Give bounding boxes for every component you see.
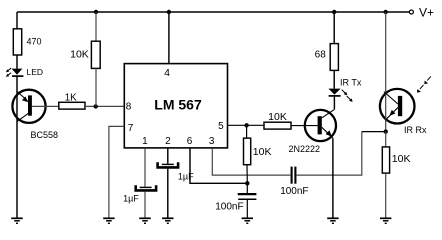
node junction dot on rail at 68 — [332, 10, 336, 14]
wire pin 3 input run — [212, 148, 290, 175]
IR Rx light arrow 1 — [420, 85, 424, 89]
node junction dot on rail at IR Rx — [384, 10, 388, 14]
IR Rx light arrow 2 — [427, 76, 431, 80]
svg-text:1K: 1K — [65, 93, 77, 104]
transistor IR Rx emitter diagonal with arrow — [386, 108, 398, 120]
svg-text:8: 8 — [126, 101, 132, 112]
wire capacitor pin2 to ground — [167, 169, 169, 218]
wire 10K right to ground — [385, 173, 387, 217]
resistor 68 — [330, 44, 338, 71]
ground 100nF timing — [242, 218, 253, 223]
capacitor 100nF timing bottom plate — [238, 198, 256, 200]
wire 1K to LM567 pin 8 — [85, 105, 124, 107]
wire 10K left to base node — [95, 68, 97, 106]
node junction dot on rail at pin 4 — [167, 10, 171, 14]
wire V+ top rail — [17, 11, 409, 13]
ground pin 7 — [103, 218, 114, 223]
wire resistor 470 to LED — [16, 55, 18, 69]
svg-text:10K: 10K — [392, 153, 411, 165]
svg-text:470: 470 — [27, 36, 42, 46]
wire pin 2 to capacitor — [167, 148, 169, 164]
svg-text:10K: 10K — [253, 146, 272, 158]
svg-text:IR Rx: IR Rx — [404, 125, 427, 135]
node junction dot timing — [245, 181, 249, 185]
LED cathode bar — [12, 75, 23, 77]
wire node to 10K right — [385, 132, 387, 147]
LED light arrow 1 — [8, 68, 12, 71]
wire pin 5 to junction — [228, 124, 265, 126]
ground 10K right — [380, 218, 391, 223]
wire rail to resistor 68 — [333, 12, 335, 44]
wire rail down through IR Rx to node — [385, 12, 387, 132]
transistor BC558 emitter diagonal with arrow — [17, 91, 28, 101]
capacitor 100nF coupling plate 1 — [291, 167, 293, 184]
svg-text:6: 6 — [187, 136, 193, 147]
svg-text:1: 1 — [142, 136, 148, 147]
transistor 2N2222 collector diagonal — [322, 109, 335, 117]
LED indicator diode triangle — [12, 69, 23, 75]
node junction dot base/1K/10K — [94, 104, 98, 108]
wire pin 6 to timing node — [190, 148, 247, 183]
transistor 2N2222 base bar — [318, 116, 322, 134]
IR Tx light arrow 1 — [342, 90, 346, 94]
wire pin5 node to vertical 10K — [246, 125, 248, 138]
diode IR Tx cathode bar — [329, 95, 341, 97]
capacitor C 1uF at pin 1 top plate — [140, 186, 152, 188]
wire coupling cap to IR Rx node — [297, 132, 362, 176]
capacitor 100nF timing top plate — [238, 193, 257, 195]
wire timing node to 100nF — [246, 183, 248, 193]
capacitor C 1uF at pin 2 top plate — [162, 163, 174, 165]
wire left branch from rail to resistor 470 — [16, 12, 18, 29]
svg-text:10K: 10K — [268, 111, 287, 123]
wire capacitor to ground — [144, 192, 146, 218]
svg-text:4: 4 — [164, 67, 170, 79]
transistor 2N2222 body circle — [305, 110, 336, 141]
capacitor C 1uF at pin 1 cup plate — [136, 185, 156, 190]
capacitor C 1uF at pin 2 cup plate — [158, 162, 179, 167]
ground 2N2222 emitter — [327, 218, 338, 223]
wire rail to LM567 pin 4 — [168, 12, 170, 64]
wire 2N2222 emitter to ground — [332, 138, 334, 217]
transistor BC558 body circle — [12, 90, 45, 123]
svg-text:100nF: 100nF — [215, 201, 243, 212]
node junction dot IR Rx emitter — [384, 129, 388, 133]
wire base from 10K — [291, 125, 318, 127]
wire rail to 10K left — [95, 12, 97, 41]
capacitor 100nF coupling plate 2 — [294, 167, 296, 184]
svg-text:68: 68 — [315, 50, 327, 61]
wire 100nF timing to ground — [246, 200, 248, 218]
svg-text:7: 7 — [128, 123, 134, 134]
svg-text:IR Tx: IR Tx — [340, 77, 362, 87]
diode IR Tx LED triangle — [328, 89, 340, 95]
transistor 2N2222 emitter diagonal with arrow — [322, 127, 333, 138]
resistor 10K vertical timing — [244, 138, 251, 165]
wire IR Tx to 2N2222 collector — [333, 97, 335, 110]
svg-text:LED: LED — [27, 67, 44, 77]
node junction dot pin5 — [244, 123, 248, 127]
svg-text:3: 3 — [209, 136, 215, 147]
svg-text:V+: V+ — [419, 6, 434, 20]
transistor IR Rx base bar — [398, 96, 402, 116]
svg-text:1µF: 1µF — [123, 193, 139, 203]
wire pin 1 to capacitor — [144, 148, 146, 187]
wire LED to BC558 down to ground — [16, 76, 18, 217]
svg-text:100nF: 100nF — [280, 186, 308, 197]
ground 1uF pin2 — [162, 218, 173, 223]
resistor 10K horizontal — [264, 122, 291, 129]
terminal V+ open circle — [409, 10, 413, 14]
ground BC558 collector — [11, 218, 22, 223]
svg-text:LM 567: LM 567 — [154, 97, 202, 113]
resistor 1K — [59, 102, 85, 109]
resistor 10K right — [382, 147, 389, 173]
svg-text:2: 2 — [165, 136, 171, 147]
IC U1 LM567 body — [124, 64, 227, 148]
transistor BC558 base bar — [28, 95, 32, 115]
resistor 10K left — [91, 41, 100, 68]
wire pin 7 to ground — [109, 126, 124, 217]
svg-text:BC558: BC558 — [31, 130, 59, 140]
resistor 470 — [13, 29, 21, 55]
svg-text:2N2222: 2N2222 — [289, 144, 321, 154]
transistor BC558 collector diagonal — [17, 113, 28, 121]
wire 10K vertical to timing node — [246, 165, 248, 184]
IR Tx light arrow 2 — [347, 96, 351, 100]
LED light arrow 2 — [8, 73, 12, 76]
wire BC558 base to resistor 1K — [32, 105, 59, 107]
ground 1uF pin1 — [139, 218, 150, 223]
transistor IR Rx collector diagonal — [384, 92, 398, 104]
transistor IR Rx body circle — [380, 89, 415, 124]
svg-text:10K: 10K — [70, 48, 89, 60]
svg-text:5: 5 — [218, 121, 224, 132]
wire 68 to IR Tx LED — [333, 70, 335, 88]
node junction dot on rail at 10K — [94, 10, 98, 14]
svg-text:1µF: 1µF — [178, 172, 194, 182]
